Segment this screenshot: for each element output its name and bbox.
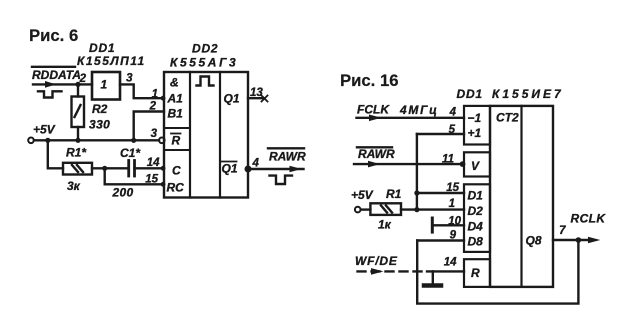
svg-text:200: 200 [112, 186, 134, 200]
node junction +5V/R1 branch [45, 138, 50, 143]
svg-text:R2: R2 [92, 102, 108, 116]
wire feedback D8 to bottom rail [417, 240, 578, 304]
wire +5V rail to R pin 3 [34, 139, 159, 141]
svg-text:15: 15 [446, 182, 459, 194]
wire pin 10 D4 [432, 224, 464, 226]
svg-text:1: 1 [152, 89, 158, 101]
node junction B1/+5V rail [131, 138, 136, 143]
svg-text:2: 2 [149, 101, 157, 113]
power +5V terminal circle fig16 [355, 207, 361, 213]
wire WF/DE dashed with arrowhead [358, 268, 428, 275]
svg-text:R1*: R1* [66, 146, 87, 160]
ground symbol [424, 271, 441, 285]
svg-text:15: 15 [145, 174, 158, 186]
svg-text:R1: R1 [386, 187, 402, 201]
svg-text:D1: D1 [468, 189, 484, 203]
wire +5V to R1 [361, 208, 371, 210]
svg-text:RAWR: RAWR [358, 147, 395, 161]
svg-text:1к: 1к [378, 218, 392, 232]
svg-text:11: 11 [442, 154, 454, 166]
IC DD1 К155ИЕ7 main box [490, 106, 553, 287]
resistor R1 [63, 163, 92, 175]
svg-text:1: 1 [449, 198, 455, 210]
svg-text:D4: D4 [468, 219, 484, 233]
svg-text:С1*: С1* [120, 146, 141, 160]
svg-text:&: & [170, 76, 179, 90]
svg-text:4МГц: 4МГц [399, 103, 439, 117]
svg-text:D2: D2 [468, 204, 484, 218]
svg-text:R: R [172, 134, 181, 148]
divider R section top [164, 127, 190, 129]
svg-text:В1: В1 [168, 107, 184, 121]
svg-text:+1: +1 [468, 126, 482, 140]
svg-text:К555АГ3: К555АГ3 [170, 56, 238, 70]
svg-text:14: 14 [444, 257, 457, 269]
svg-text:7: 7 [559, 225, 566, 237]
svg-text:R: R [471, 266, 480, 280]
svg-text:RAWR: RAWR [269, 149, 306, 163]
wire RDDATA input with arrowhead [33, 81, 92, 88]
output ~Q1 pin 4 dot [245, 166, 252, 173]
svg-text:3к: 3к [67, 179, 81, 193]
inversion bubble at R input [159, 138, 165, 144]
divider left column DD2 [189, 72, 191, 198]
svg-text:К155ЛП11: К155ЛП11 [77, 54, 146, 68]
wire pin 15 D1 [417, 192, 464, 194]
wire RAWR output with arrowhead [248, 166, 304, 172]
node junction R1/C1/RC [102, 166, 107, 171]
wire B1 pin 2 to +5V rail [134, 112, 164, 141]
label ~Q1 with overline [222, 162, 238, 176]
svg-text:Q1: Q1 [222, 162, 238, 176]
svg-text:DD1: DD1 [457, 87, 483, 101]
output Q8 pin 7 wire with arrowhead [553, 237, 600, 244]
svg-text:CT2: CT2 [496, 111, 519, 125]
pulse symbol in DD2 [197, 77, 214, 86]
svg-text:4: 4 [252, 158, 260, 170]
sub-box D1-D8 [464, 184, 490, 252]
wire +5V down to R1 [48, 140, 63, 168]
svg-text:3: 3 [126, 73, 133, 85]
waveform symbol at RAWR [270, 176, 293, 184]
net RAWR label with overline [268, 148, 306, 163]
wire C1 to pin 14 C [135, 167, 165, 169]
svg-text:RCLK: RCLK [571, 212, 607, 226]
resistor R1 fig16 [370, 203, 401, 215]
node junction R1/D2 tie [414, 207, 419, 212]
svg-text:Q8: Q8 [526, 234, 542, 248]
sub-box R [464, 259, 490, 287]
node pin1 dot [161, 96, 166, 101]
svg-text:Рис. 6: Рис. 6 [29, 26, 78, 45]
node pin 14 dot [161, 166, 166, 171]
svg-text:FCLK: FCLK [357, 103, 390, 117]
net RDDATA label with overline [32, 67, 81, 82]
svg-text:13: 13 [250, 87, 263, 99]
svg-text:+5V: +5V [33, 123, 56, 137]
node pin 15 dot [161, 182, 166, 187]
resistor R2 [72, 97, 85, 128]
wire RAWR to pin 11 V with arrowhead [354, 161, 464, 168]
wire R1 to C1 junction [92, 167, 127, 169]
sub-box counter -1/+1 [464, 106, 490, 145]
capacitor C1 [129, 161, 135, 177]
x-cross terminator pin 13 [262, 96, 268, 102]
svg-text:RDDATA: RDDATA [32, 68, 81, 82]
svg-text:3: 3 [151, 128, 158, 140]
wire vertical tie +1/D1/D2 [416, 134, 418, 210]
node junction feedback/RCLK [576, 237, 582, 243]
svg-text:330: 330 [89, 118, 110, 132]
wire gate output to A1 pin 1 [120, 84, 164, 98]
power +5V terminal circle [28, 138, 34, 144]
svg-text:C: C [172, 164, 181, 178]
label R with overline [171, 134, 181, 148]
wire pin 5 +1 [417, 133, 464, 135]
divider C section top [164, 149, 190, 151]
tie bar at D4 [431, 218, 434, 232]
svg-text:−1: −1 [468, 111, 482, 125]
wire RDDATA junction down to R2 [77, 84, 79, 96]
gate DD1.1 box with "1" [92, 72, 120, 100]
sub-box V [464, 152, 490, 176]
svg-text:А1: А1 [167, 92, 184, 106]
svg-text:К155ИЕ7: К155ИЕ7 [492, 87, 564, 101]
svg-text:WF/DE: WF/DE [355, 254, 398, 268]
wire FCLK to pin 4 with arrowhead [357, 115, 465, 122]
svg-text:14: 14 [147, 157, 160, 169]
node dot at pin 11 [460, 161, 466, 167]
svg-text:10: 10 [448, 216, 461, 228]
svg-text:4: 4 [449, 107, 457, 119]
wire junction to pin 15 RC [105, 168, 164, 184]
svg-text:DD2: DD2 [192, 42, 218, 56]
svg-text:+5V: +5V [351, 188, 374, 202]
node junction RDDATA / R2 [75, 82, 80, 87]
output Q1 pin 13 stub [248, 97, 263, 99]
waveform symbol at RDDATA [38, 91, 62, 97]
divider right column DD2 [219, 72, 221, 198]
wire R1 to pin 1 D2 [401, 208, 464, 210]
svg-text:RC: RC [167, 181, 185, 195]
svg-text:2: 2 [79, 73, 87, 85]
svg-text:V: V [471, 159, 480, 173]
svg-text:5: 5 [449, 124, 456, 136]
wire to pin 14 R [427, 270, 464, 272]
IC DD2 К555АГ3 outline box [164, 72, 248, 198]
wire pin 9 D8 [417, 239, 464, 241]
svg-text:D8: D8 [468, 235, 484, 249]
svg-text:DD1: DD1 [89, 41, 115, 55]
svg-text:1: 1 [101, 78, 108, 92]
svg-text:Рис. 16: Рис. 16 [340, 71, 399, 90]
svg-text:9: 9 [450, 230, 457, 242]
node junction R2/+5V rail [75, 138, 80, 143]
svg-text:Q1: Q1 [224, 92, 240, 106]
net RAWR input label with overline [357, 147, 395, 161]
wire R2 to +5V rail [77, 127, 79, 140]
node junction D1 tie [414, 190, 419, 195]
divider CT2/Q8 columns [520, 106, 522, 287]
